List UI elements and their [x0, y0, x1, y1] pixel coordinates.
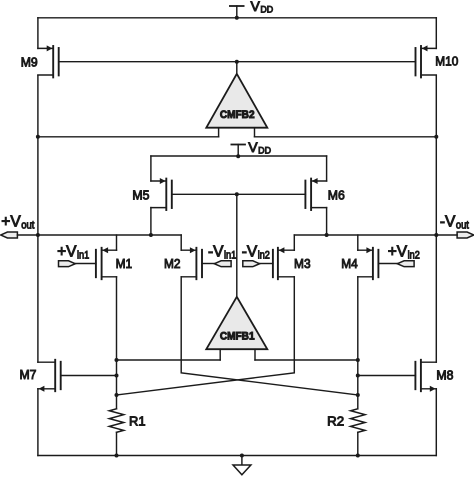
svg-text:+V: +V	[388, 244, 408, 261]
svg-text:M6: M6	[328, 187, 345, 202]
svg-text:M2: M2	[164, 256, 181, 271]
svg-text:in1: in1	[77, 249, 89, 261]
svg-text:V: V	[251, 0, 261, 14]
svg-text:DD: DD	[258, 146, 271, 157]
svg-text:out: out	[21, 220, 34, 232]
svg-text:DD: DD	[260, 5, 273, 16]
svg-text:M1: M1	[116, 256, 133, 271]
svg-text:-V: -V	[208, 244, 224, 261]
svg-text:R2: R2	[327, 414, 344, 429]
svg-text:M10: M10	[435, 53, 458, 68]
svg-text:M5: M5	[132, 187, 149, 202]
svg-text:+V: +V	[1, 214, 21, 231]
svg-text:CMFB2: CMFB2	[220, 109, 255, 121]
svg-text:CMFB1: CMFB1	[220, 331, 255, 343]
svg-text:+V: +V	[57, 244, 77, 261]
svg-text:V: V	[248, 139, 258, 155]
svg-text:M7: M7	[20, 367, 37, 382]
svg-text:M4: M4	[341, 256, 358, 271]
svg-text:in1: in1	[224, 249, 236, 261]
svg-text:R1: R1	[129, 414, 146, 429]
svg-text:out: out	[456, 220, 469, 232]
svg-text:M3: M3	[294, 256, 311, 271]
svg-text:in2: in2	[408, 249, 420, 261]
svg-text:M8: M8	[436, 367, 453, 382]
svg-text:M9: M9	[21, 54, 38, 69]
svg-text:in2: in2	[258, 249, 270, 261]
svg-text:-V: -V	[242, 244, 258, 261]
svg-text:-V: -V	[440, 214, 456, 231]
